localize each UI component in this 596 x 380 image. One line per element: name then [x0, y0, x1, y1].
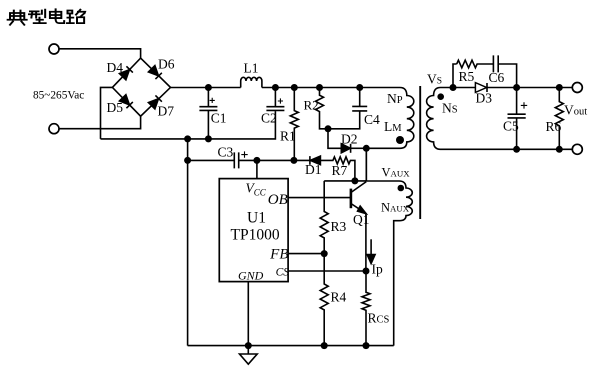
transistor Q1	[350, 189, 353, 209]
title 典型电路 (hand-drawn CJK strokes)	[8, 9, 85, 25]
wire R2/C4 node down to D2 line	[328, 129, 341, 149]
polarity dot Ns	[437, 93, 444, 100]
input terminal bottom	[49, 124, 59, 134]
svg-text:VCC: VCC	[246, 181, 267, 198]
wire snubber branch up	[453, 64, 457, 88]
svg-text:R2: R2	[304, 98, 319, 113]
svg-text:Q1: Q1	[353, 212, 370, 227]
wire OB line	[288, 197, 350, 199]
resistor Rcs	[362, 271, 370, 346]
wire bottom rail	[188, 345, 394, 347]
junction Vcc drop	[253, 157, 260, 164]
junction R6 top	[556, 84, 563, 91]
transformer aux winding Naux	[366, 181, 412, 346]
wire Vcc pin drop	[256, 160, 258, 178]
junction R6 bottom	[556, 146, 563, 153]
svg-text:D3: D3	[476, 91, 493, 106]
svg-text:D2: D2	[341, 132, 358, 147]
current arrow Ip	[370, 239, 372, 255]
capacitor C5	[508, 88, 526, 150]
svg-text:GND: GND	[238, 268, 264, 282]
plus C2	[278, 98, 283, 103]
input terminal top	[49, 44, 59, 54]
capacitor C1	[199, 88, 217, 139]
svg-text:Vout: Vout	[564, 103, 587, 118]
wire bottom input to bridge	[59, 116, 141, 129]
svg-text:FB: FB	[269, 247, 288, 263]
wire Np bottom node down to collector node	[365, 148, 367, 181]
resistor R1	[290, 88, 298, 161]
diode D3	[453, 87, 475, 89]
output terminal top	[572, 83, 582, 93]
svg-text:R7: R7	[332, 163, 348, 178]
junction R2/C4 node	[325, 125, 332, 132]
resistor R7	[320, 157, 355, 181]
svg-text:NP: NP	[387, 91, 403, 106]
diode D4	[119, 66, 132, 79]
plus C1	[210, 98, 215, 103]
capacitor C4	[328, 88, 367, 129]
svg-text:TP1000: TP1000	[231, 227, 280, 244]
output terminal bottom	[572, 144, 582, 154]
svg-text:C2: C2	[261, 111, 277, 126]
junction Vs node	[450, 84, 457, 91]
wire top input to bridge	[59, 49, 141, 58]
diode D7	[148, 95, 161, 108]
junction DC- rail / left vertical	[184, 135, 191, 142]
junction R2 top	[316, 84, 323, 91]
polarity dot Np	[396, 136, 404, 144]
junction left-vertical/Vcc-line	[184, 157, 191, 164]
svg-text:D1: D1	[305, 162, 322, 177]
capacitor C2	[266, 88, 284, 111]
resistor R2	[316, 88, 329, 129]
svg-text:NAUX: NAUX	[381, 201, 410, 215]
junction C1 bottom	[205, 135, 212, 142]
svg-text:D7: D7	[158, 104, 175, 119]
op-amp U1 TP1000 box	[219, 179, 288, 282]
diode D2	[341, 144, 350, 153]
svg-text:Ip: Ip	[372, 262, 383, 277]
svg-text:RCS: RCS	[368, 311, 390, 326]
inductor L1	[241, 77, 262, 87]
wire CS line	[288, 270, 366, 272]
svg-text:R6: R6	[546, 119, 562, 134]
resistor R4	[320, 254, 328, 346]
resistor R6	[555, 88, 563, 150]
wire DC+ rail (L1 to transformer)	[262, 87, 400, 89]
junction FB node	[321, 250, 328, 257]
junction C4 top	[356, 84, 363, 91]
wire emitter down	[365, 213, 367, 271]
svg-text:C3: C3	[218, 145, 234, 160]
wire DC+ rail (bridge to L1)	[171, 87, 241, 89]
resistor R5	[457, 60, 493, 68]
junction R1 bottom / D1	[290, 157, 297, 164]
wire bridge left vertex to DC- rail	[101, 87, 113, 138]
plus C5	[521, 102, 527, 108]
plus C3	[241, 151, 247, 157]
wire GND pin drop	[247, 282, 249, 346]
svg-text:C5: C5	[503, 119, 519, 134]
junction Rcs bottom	[363, 342, 370, 349]
svg-text:R4: R4	[331, 290, 347, 305]
svg-text:C4: C4	[364, 112, 380, 127]
diode D6	[148, 66, 161, 79]
bridge diamond wires	[112, 58, 170, 116]
svg-text:D4: D4	[107, 60, 124, 75]
junction C2 top	[272, 84, 279, 91]
junction R1 top	[291, 84, 298, 91]
wire FB line	[288, 253, 324, 255]
svg-text:L1: L1	[244, 61, 259, 76]
junction C1 top	[205, 84, 212, 91]
junction R4 bottom	[321, 342, 328, 349]
polarity dot aux	[398, 185, 405, 192]
svg-text:R5: R5	[459, 69, 475, 84]
diode D1	[294, 156, 310, 165]
capacitor C6	[493, 55, 516, 87]
wire D2 to Np bottom node	[351, 147, 367, 149]
svg-text:R3: R3	[331, 219, 347, 234]
transformer core	[419, 86, 421, 219]
capacitor C3	[234, 152, 294, 168]
junction R7 drop	[351, 177, 358, 184]
junction GND node	[245, 342, 252, 349]
junction D2/Np node	[363, 145, 370, 152]
svg-text:U1: U1	[247, 210, 266, 227]
wire DC- rail	[101, 111, 276, 139]
ground	[240, 346, 258, 365]
svg-text:NS: NS	[442, 101, 458, 116]
svg-text:OB: OB	[268, 192, 288, 208]
svg-text:VAUX: VAUX	[382, 166, 411, 180]
junction D3 cathode node	[513, 84, 520, 91]
svg-text:C6: C6	[489, 70, 505, 85]
svg-text:D5: D5	[107, 100, 124, 115]
wire collector node line	[324, 148, 366, 181]
diode D5	[119, 95, 132, 108]
wire Vcc line (left vertical to C3)	[188, 159, 234, 161]
wire left vertical	[187, 139, 189, 346]
svg-text:CS: CS	[276, 267, 290, 279]
junction Ip/CS node	[363, 268, 370, 275]
svg-text:R1: R1	[280, 129, 296, 144]
svg-text:D6: D6	[158, 57, 175, 72]
resistor R3	[320, 181, 328, 254]
wire output top	[517, 87, 573, 89]
transformer secondary Ns winding	[427, 88, 573, 150]
svg-text:VS: VS	[427, 72, 442, 87]
transformer primary Np winding	[366, 88, 414, 149]
svg-text:C1: C1	[211, 111, 227, 126]
svg-text:85~265Vac: 85~265Vac	[33, 90, 84, 102]
svg-text:LM: LM	[384, 119, 402, 134]
junction C5 bottom	[513, 146, 520, 153]
